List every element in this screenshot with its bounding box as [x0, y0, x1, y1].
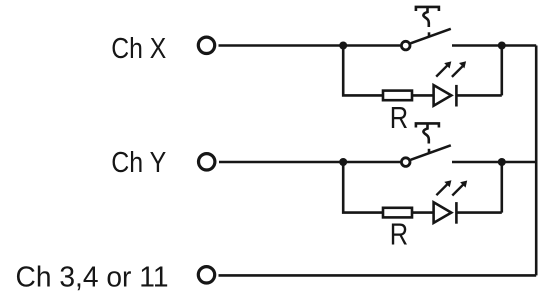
svg-text:Ch Y: Ch Y — [111, 147, 166, 179]
svg-text:Ch X: Ch X — [111, 33, 166, 65]
svg-text:R: R — [390, 100, 408, 135]
svg-text:Ch 3,4 or 11: Ch 3,4 or 11 — [16, 261, 169, 293]
svg-text:R: R — [390, 217, 408, 252]
